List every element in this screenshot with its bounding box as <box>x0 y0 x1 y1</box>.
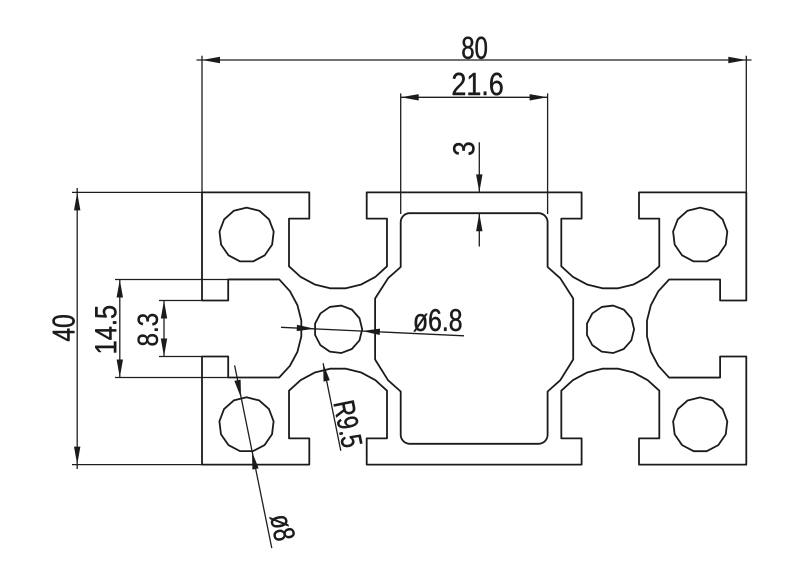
dimension 21.6: extension line right <box>547 93 549 214</box>
corner hole diameter 8 top-right <box>673 208 727 262</box>
dimension diameter 8: text <box>270 513 296 542</box>
dimension 14.5: text <box>95 306 116 353</box>
dimension 80: extension line right <box>745 56 747 193</box>
dimension 8.3: extension line bottom <box>159 356 202 358</box>
dimension 3: lower leader line <box>478 213 480 246</box>
dimension 3: text <box>453 143 475 155</box>
dimension R9.5: arrowhead <box>323 363 330 381</box>
dimension diameter 6.8: leader line through left core hole <box>281 327 464 336</box>
dimension 40: arrowheads <box>74 192 80 464</box>
dimension 14.5: dimension line <box>119 280 121 378</box>
core hole diameter 6.8 left <box>315 306 362 353</box>
dimension 8.3: dimension line <box>163 301 165 357</box>
dimension 14.5: extension line top <box>115 279 228 281</box>
dimension 8.3: text <box>138 314 159 346</box>
dimension 40: extension line bottom <box>72 464 202 466</box>
dimension 8.3: arrowheads <box>161 301 167 357</box>
profile outer outline (80x40 aluminium extrusion with T-slots) <box>202 192 746 464</box>
core hole diameter 6.8 right <box>587 306 634 353</box>
dimension 21.6: arrowheads <box>401 94 548 100</box>
dimension diameter 8: leader line through bottom-left corner hole <box>235 365 272 548</box>
dimension 14.5: arrowheads <box>117 280 123 378</box>
dimension 14.5: extension line bottom <box>115 377 228 379</box>
dimension 40: dimension line <box>76 188 78 469</box>
central cavity (21.6 wide) <box>375 213 573 444</box>
dimension 40: text <box>52 315 74 341</box>
dimension 80: arrowheads <box>202 57 746 63</box>
dimension 40: extension line top <box>72 191 202 193</box>
dimension diameter 8: arrowheads <box>234 380 258 470</box>
dimension 3: upper leader line <box>478 142 480 192</box>
dimension 21.6: extension line left <box>400 93 402 214</box>
corner hole diameter 8 bottom-right <box>673 397 727 451</box>
dimension 8.3: extension line top <box>159 300 202 302</box>
dimension 80: dimension line <box>197 59 752 61</box>
dimension R9.5: leader line to bottom slot dome <box>323 363 341 450</box>
dimension diameter 6.8: arrowheads <box>297 325 380 335</box>
corner hole diameter 8 bottom-left <box>219 397 273 451</box>
dimension 80: text <box>462 37 487 59</box>
dimension diameter 6.8: text <box>413 309 461 332</box>
dimension 80: extension line left <box>201 56 203 193</box>
dimension 21.6: text <box>453 73 503 96</box>
corner hole diameter 8 top-left <box>220 208 274 262</box>
dimension 21.6: dimension line <box>401 96 548 98</box>
dimension R9.5: text <box>333 400 362 448</box>
dimension 3: arrowheads <box>476 174 482 231</box>
